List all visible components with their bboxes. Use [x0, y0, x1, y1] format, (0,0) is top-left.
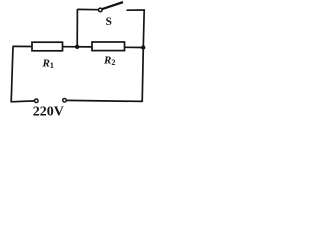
svg-text:220V: 220V — [33, 104, 64, 119]
resistor R1 — [32, 42, 63, 51]
node A junction dot — [75, 45, 79, 49]
resistor R2 — [92, 42, 125, 51]
wire switch branch top right — [127, 9, 146, 11]
wire bottom left segment — [11, 100, 35, 103]
wire right side lower (node B to bottom) — [142, 48, 143, 103]
switch S pivot circle — [99, 8, 103, 12]
terminal circle 220V left — [35, 99, 39, 103]
wire switch branch vertical (node A up) — [76, 9, 78, 47]
wire R2 to node B — [125, 46, 144, 48]
svg-text:S: S — [106, 16, 112, 28]
switch S blade (open) — [102, 2, 123, 9]
wire main left (left corner to R1) — [13, 45, 33, 47]
wire bottom right segment — [66, 100, 142, 101]
wire right side upper (top corner to node B) — [142, 10, 145, 48]
wire left side — [11, 46, 13, 101]
wire R1 to R2 through node A — [63, 46, 93, 48]
wire switch branch top left — [77, 8, 98, 10]
terminal circle 220V right — [63, 99, 67, 103]
node B junction dot — [141, 45, 145, 49]
